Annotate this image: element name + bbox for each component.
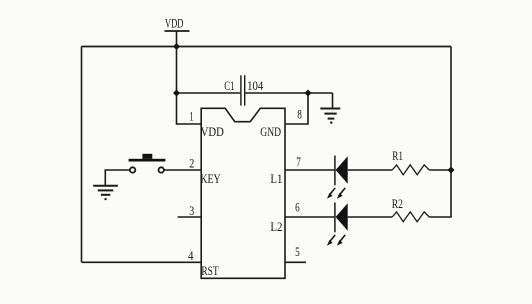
wire LED D2 to R2 xyxy=(348,216,393,218)
wire bottom to pin 4 xyxy=(82,261,202,263)
wire ground to button xyxy=(105,170,130,186)
wire left rail xyxy=(81,47,83,263)
resistor R2 xyxy=(392,212,429,222)
svg-text:R1: R1 xyxy=(392,149,403,163)
value 104 xyxy=(247,79,264,93)
wire pin 6 to LED D2 xyxy=(285,216,335,218)
LED D2 arrows xyxy=(329,235,345,243)
wire R1 to right rail xyxy=(429,169,451,171)
wire LED D1 to R1 xyxy=(348,169,393,171)
label R2 xyxy=(392,197,403,211)
pin label GND xyxy=(260,125,281,139)
svg-text:3: 3 xyxy=(189,204,194,218)
pin number 8 xyxy=(297,108,302,122)
pin 3 stub xyxy=(178,216,202,218)
svg-text:L2: L2 xyxy=(270,220,282,234)
junction at VDD / top rail xyxy=(173,43,180,50)
svg-text:C1: C1 xyxy=(224,79,234,93)
wire pin 7 to LED D1 xyxy=(285,169,335,171)
svg-text:L1: L1 xyxy=(270,172,282,186)
capacitor C1 plates xyxy=(240,75,242,105)
svg-text:RST: RST xyxy=(201,264,218,278)
LED D1 cathode bar xyxy=(334,156,336,186)
LED D2 triangle xyxy=(336,203,348,230)
svg-text:VDD: VDD xyxy=(201,125,224,139)
switch S1 actuator bar xyxy=(129,159,166,162)
ground (left, button) xyxy=(93,186,118,199)
power symbol VDD xyxy=(165,16,184,30)
op-amp U1 IC body xyxy=(201,108,285,278)
svg-text:8: 8 xyxy=(297,108,302,122)
svg-text:2: 2 xyxy=(189,157,194,171)
pin number 1 xyxy=(189,109,193,123)
wire C1 left segment xyxy=(177,92,241,94)
switch S1 left contact xyxy=(130,167,135,172)
junction at C1 wire / VDD drop xyxy=(173,90,180,97)
pin label L1 xyxy=(270,172,282,186)
svg-text:GND: GND xyxy=(260,125,281,139)
wire VDD drop to pin 1 xyxy=(177,47,202,125)
pin 5 stub xyxy=(285,261,306,263)
wire VDD stem to top rail xyxy=(176,31,178,47)
pin label L2 xyxy=(270,220,282,234)
ground (right of C1) xyxy=(320,109,340,123)
pin number 3 xyxy=(189,204,194,218)
junction at pin 8 riser xyxy=(305,90,312,97)
wire pin 8 riser xyxy=(285,93,308,124)
svg-text:5: 5 xyxy=(295,245,300,259)
svg-text:1: 1 xyxy=(189,109,193,123)
svg-text:104: 104 xyxy=(247,79,264,93)
junction at R1 / right rail xyxy=(448,167,455,174)
wire R2 to right rail xyxy=(429,216,451,218)
LED D1 arrows xyxy=(329,188,345,196)
label C1 xyxy=(224,79,234,93)
label R1 xyxy=(392,149,403,163)
LED D1 triangle xyxy=(336,156,348,183)
pin label KEY xyxy=(200,172,220,186)
wire top rail xyxy=(82,46,452,48)
wire C1 right segment xyxy=(245,92,332,94)
pin number 2 xyxy=(189,157,194,171)
svg-text:R2: R2 xyxy=(392,197,403,211)
svg-text:7: 7 xyxy=(296,155,301,169)
switch S1 right contact xyxy=(159,167,164,172)
svg-text:6: 6 xyxy=(295,201,300,215)
wire button to pin 2 xyxy=(164,169,202,171)
switch S1 knob xyxy=(142,154,152,159)
pin label VDD xyxy=(201,125,224,139)
pin number 5 xyxy=(295,245,300,259)
wire right rail xyxy=(450,47,452,218)
pin number 7 xyxy=(296,155,301,169)
pin number 4 xyxy=(188,249,194,263)
LED D2 cathode bar xyxy=(334,203,336,233)
svg-text:4: 4 xyxy=(188,249,194,263)
resistor R1 xyxy=(392,165,429,175)
wire ground drop (right) xyxy=(332,93,334,109)
pin number 6 xyxy=(295,201,300,215)
svg-text:VDD: VDD xyxy=(165,16,184,30)
svg-text:KEY: KEY xyxy=(200,172,220,186)
pin label RST xyxy=(201,264,218,278)
